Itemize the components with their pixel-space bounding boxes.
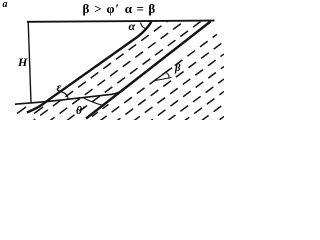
angle arc alpha: [141, 22, 147, 29]
angle arc epsilon: [59, 91, 69, 99]
hatch line c=269.8: [190, 104, 224, 129]
hatch dash below-left 1: [17, 107, 26, 114]
angle arc beta: [167, 73, 169, 78]
rupture line B (lower thick, straight): [86, 22, 211, 119]
label alpha: [129, 19, 136, 34]
angle arc theta: [84, 98, 102, 105]
bottom base line: [15, 89, 125, 104]
hatch line c=157.6: [40, 20, 186, 128]
top surface line: [27, 21, 215, 22]
hatch line c=232.3: [139, 67, 224, 130]
hatch line c=207.3: [105, 42, 224, 130]
header text: alpha = beta: [125, 1, 156, 17]
beta horizontal reference line: [155, 78, 171, 81]
hatch line c=145.2: [30, 19, 170, 123]
hatch line c=244.8: [156, 79, 224, 129]
hatch dash below-left 2: [34, 107, 43, 114]
label epsilon: [57, 80, 62, 95]
label theta': [76, 105, 85, 117]
hatch line c=170.0: [55, 21, 202, 130]
dimension label H: [18, 55, 27, 70]
hatch dash segment under rupture tail: [92, 103, 110, 116]
figure label a: [3, 0, 8, 10]
left vertical dimension line (slightly leaning): [28, 22, 31, 103]
header text: beta > phi': [83, 1, 120, 17]
hatch line c=194.8 (beta construction dashed line): [88, 34, 217, 129]
hatch line c=257.3: [173, 92, 224, 130]
hatch dashed lines: [30, 19, 224, 129]
hatch line c=282.3: [207, 117, 224, 130]
beta construction solid segment: [155, 68, 172, 80]
label beta: [175, 63, 180, 74]
hatch line c=219.8: [122, 54, 224, 130]
slope surface line A (upper thick, with hooked top end): [27, 22, 151, 113]
